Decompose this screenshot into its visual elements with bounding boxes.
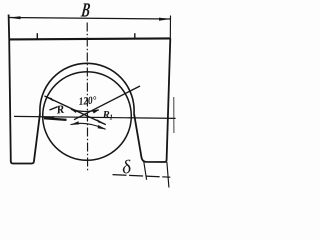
circle: rope/pipe of radius R1	[43, 72, 132, 161]
arrow right end of lower arc	[98, 125, 107, 130]
label R	[55, 104, 66, 117]
extension of leg inner edge below foot	[144, 161, 147, 180]
part outline: top face	[9, 38, 170, 39]
wire: B dimension line	[9, 18, 171, 20]
arrow of line A upper-left end	[45, 96, 54, 102]
arrow left end of angle arc	[71, 109, 77, 113]
horizontal centerline / R1 radius line	[14, 116, 176, 118]
arrow left end of lower arc	[70, 121, 79, 125]
label B	[79, 0, 91, 21]
vertical centerline (dash-dot)	[86, 23, 88, 171]
extension of leg outer edge below foot	[167, 162, 169, 188]
angle arc of 120 degrees	[71, 109, 99, 111]
tick above top face right	[134, 33, 136, 39]
part outline: left outer edge	[9, 15, 40, 164]
radial line A (R leader at 25deg up-left)	[45, 96, 106, 125]
lower angle arc below vertex	[71, 123, 106, 129]
part outline: trough arc (radius R surface)	[40, 63, 134, 113]
tail stroke of R glyph	[50, 107, 58, 110]
arrow left of B dimension	[9, 16, 21, 19]
svg-text:120°: 120°	[78, 95, 97, 108]
label 120deg	[78, 95, 97, 108]
delta dimension line	[113, 175, 171, 178]
wire: right extension line above part	[169, 16, 171, 39]
label delta	[121, 157, 133, 179]
label R1	[102, 110, 113, 122]
arrow right end of angle arc	[93, 110, 99, 113]
svg-text:1: 1	[109, 114, 113, 122]
radial line B (R1 angle radial up-right)	[74, 86, 140, 120]
arrow of R1 radius at circle left rim	[42, 116, 54, 119]
part outline: right outer edge and foot	[134, 38, 170, 162]
short vertical line right of part	[173, 97, 175, 133]
arrow right of B dimension	[159, 18, 171, 21]
arrow of line A lower-right end	[97, 119, 106, 125]
thick tail of R1 arrow	[44, 118, 67, 120]
tick above top face left	[36, 33, 38, 40]
